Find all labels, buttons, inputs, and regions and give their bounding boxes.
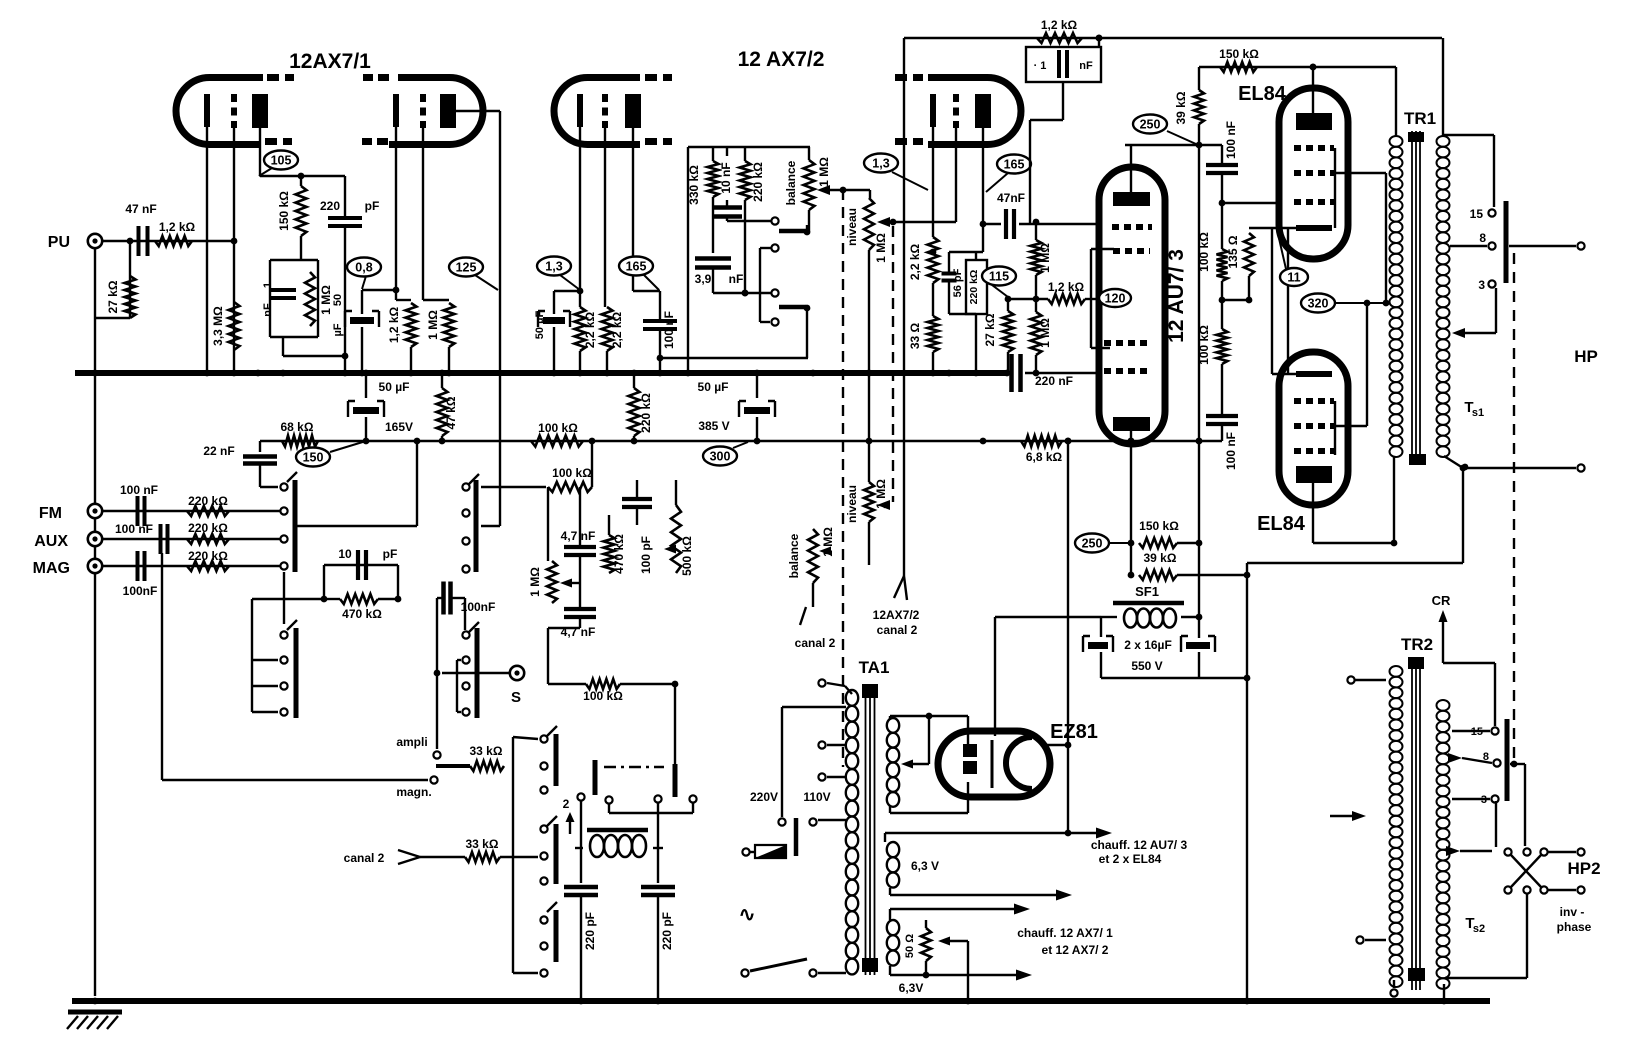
svg-text:220 pF: 220 pF xyxy=(583,912,597,950)
svg-text:47 nF: 47 nF xyxy=(125,202,156,216)
svg-text:1 MΩ: 1 MΩ xyxy=(874,233,888,263)
svg-text:100 kΩ: 100 kΩ xyxy=(552,466,592,480)
svg-text:balance: balance xyxy=(784,160,798,205)
svg-text:150 kΩ: 150 kΩ xyxy=(277,191,291,231)
svg-text:50: 50 xyxy=(332,294,344,306)
svg-text:TR1: TR1 xyxy=(1404,109,1436,128)
svg-text:3,9: 3,9 xyxy=(695,272,712,286)
svg-text:inv -: inv - xyxy=(1560,905,1585,919)
svg-text:canal 2: canal 2 xyxy=(877,623,918,637)
svg-text:100 kΩ: 100 kΩ xyxy=(538,421,578,435)
svg-text:220 kΩ: 220 kΩ xyxy=(188,521,228,535)
svg-text:100 kΩ: 100 kΩ xyxy=(583,689,623,703)
svg-text:12 AU7/ 3: 12 AU7/ 3 xyxy=(1165,249,1188,343)
svg-text:nF: nF xyxy=(262,303,274,317)
svg-text:HP2: HP2 xyxy=(1567,859,1600,878)
svg-text:1,2 kΩ: 1,2 kΩ xyxy=(159,220,196,234)
svg-text:1 MΩ: 1 MΩ xyxy=(319,285,333,315)
svg-text:niveau: niveau xyxy=(845,208,859,246)
svg-text:ampli: ampli xyxy=(396,735,427,749)
svg-text:pF: pF xyxy=(383,547,398,561)
svg-text:33 Ω: 33 Ω xyxy=(908,322,922,349)
svg-text:10: 10 xyxy=(338,547,352,561)
svg-text:100 nF: 100 nF xyxy=(115,522,153,536)
svg-text:nF: nF xyxy=(1079,60,1093,72)
svg-text:1: 1 xyxy=(262,282,274,288)
svg-text:250: 250 xyxy=(1140,118,1161,132)
svg-text:100 nF: 100 nF xyxy=(1224,432,1238,470)
svg-text:nF: nF xyxy=(729,272,744,286)
svg-text:220 nF: 220 nF xyxy=(1035,374,1073,388)
svg-text:100 nF: 100 nF xyxy=(120,483,158,497)
svg-text:320: 320 xyxy=(1308,297,1329,311)
svg-text:6,3V: 6,3V xyxy=(899,981,924,995)
svg-text:1,3: 1,3 xyxy=(545,260,562,274)
svg-text:1,2 kΩ: 1,2 kΩ xyxy=(1048,280,1085,294)
svg-text:12AX7/1: 12AX7/1 xyxy=(289,50,371,73)
svg-text:1,2 kΩ: 1,2 kΩ xyxy=(1041,18,1078,32)
svg-text:3: 3 xyxy=(1481,794,1487,806)
svg-text:2,2 kΩ: 2,2 kΩ xyxy=(610,311,624,348)
svg-text:∿: ∿ xyxy=(739,904,756,926)
svg-text:EL84: EL84 xyxy=(1257,513,1306,535)
svg-text:2: 2 xyxy=(563,797,570,811)
svg-text:47nF: 47nF xyxy=(997,191,1025,205)
svg-text:165V: 165V xyxy=(385,420,413,434)
svg-text:s1: s1 xyxy=(1472,407,1484,419)
svg-text:100 pF: 100 pF xyxy=(639,536,653,574)
svg-text:150 kΩ: 150 kΩ xyxy=(1139,519,1179,533)
svg-text:68 kΩ: 68 kΩ xyxy=(281,420,314,434)
svg-text:27 kΩ: 27 kΩ xyxy=(106,280,120,313)
svg-text:135 Ω: 135 Ω xyxy=(1226,235,1240,268)
svg-text:2,2 kΩ: 2,2 kΩ xyxy=(908,243,922,280)
svg-text:250: 250 xyxy=(1082,537,1103,551)
svg-text:3: 3 xyxy=(1478,278,1485,292)
svg-text:125: 125 xyxy=(456,261,477,275)
svg-text:220 kΩ: 220 kΩ xyxy=(188,549,228,563)
svg-text:0,8: 0,8 xyxy=(355,261,372,275)
svg-text:385 V: 385 V xyxy=(698,419,729,433)
svg-text:47 kΩ: 47 kΩ xyxy=(444,396,458,429)
svg-text:3,3 MΩ: 3,3 MΩ xyxy=(211,306,225,346)
svg-text:100 kΩ: 100 kΩ xyxy=(1197,325,1211,365)
svg-text:105: 105 xyxy=(271,154,292,168)
svg-text:2 x 16µF: 2 x 16µF xyxy=(1124,638,1172,652)
svg-text:1 MΩ: 1 MΩ xyxy=(1038,318,1052,348)
svg-text:330 kΩ: 330 kΩ xyxy=(687,165,701,205)
svg-text:22 nF: 22 nF xyxy=(203,444,234,458)
svg-text:EL84: EL84 xyxy=(1238,83,1287,105)
svg-text:470 kΩ: 470 kΩ xyxy=(612,534,626,574)
svg-text:50 Ω: 50 Ω xyxy=(904,934,916,958)
svg-text:220V: 220V xyxy=(750,790,778,804)
svg-text:6,3 V: 6,3 V xyxy=(911,859,939,873)
svg-text:EZ81: EZ81 xyxy=(1050,721,1098,743)
svg-text:220 kΩ: 220 kΩ xyxy=(968,270,980,305)
svg-text:110V: 110V xyxy=(803,790,830,804)
svg-text:220 kΩ: 220 kΩ xyxy=(188,494,228,508)
svg-text:100nF: 100nF xyxy=(123,584,158,598)
svg-text:canal 2: canal 2 xyxy=(795,636,836,650)
svg-text:1,3: 1,3 xyxy=(872,157,889,171)
svg-text:chauff. 12 AU7/ 3: chauff. 12 AU7/ 3 xyxy=(1091,838,1188,852)
svg-text:39 kΩ: 39 kΩ xyxy=(1174,91,1188,124)
svg-text:8: 8 xyxy=(1483,751,1489,763)
svg-text:8: 8 xyxy=(1479,231,1486,245)
svg-text:6,8 kΩ: 6,8 kΩ xyxy=(1026,450,1063,464)
svg-text:TA1: TA1 xyxy=(859,658,890,677)
svg-text:100 kΩ: 100 kΩ xyxy=(1197,232,1211,272)
svg-text:et 12 AX7/ 2: et 12 AX7/ 2 xyxy=(1042,943,1109,957)
svg-text:500 kΩ: 500 kΩ xyxy=(680,536,694,576)
svg-text:niveau: niveau xyxy=(845,485,859,523)
svg-text:S: S xyxy=(511,689,521,706)
svg-text:canal 2: canal 2 xyxy=(344,851,385,865)
svg-text:µF: µF xyxy=(332,323,344,336)
svg-text:15: 15 xyxy=(1471,726,1483,738)
svg-text:220 kΩ: 220 kΩ xyxy=(751,162,765,202)
svg-text:1 MΩ: 1 MΩ xyxy=(528,567,542,597)
svg-text:100 nF: 100 nF xyxy=(662,311,676,349)
svg-text:56 pF: 56 pF xyxy=(952,268,964,297)
svg-text:150 kΩ: 150 kΩ xyxy=(1219,47,1259,61)
svg-text:2,2 kΩ: 2,2 kΩ xyxy=(583,311,597,348)
svg-text:220: 220 xyxy=(320,199,340,213)
svg-text:12AX7/2: 12AX7/2 xyxy=(873,608,920,622)
svg-text:phase: phase xyxy=(1557,920,1592,934)
svg-text:165: 165 xyxy=(1004,158,1025,172)
svg-text:12 AX7/2: 12 AX7/2 xyxy=(738,48,825,71)
svg-text:50 µF: 50 µF xyxy=(698,380,729,394)
svg-text:300: 300 xyxy=(710,450,731,464)
svg-text:150: 150 xyxy=(303,451,324,465)
svg-text:470 kΩ: 470 kΩ xyxy=(342,607,382,621)
svg-text:AUX: AUX xyxy=(34,533,68,550)
svg-text:1 MΩ: 1 MΩ xyxy=(1038,243,1052,273)
svg-text:s2: s2 xyxy=(1473,923,1485,935)
svg-text:pF: pF xyxy=(365,199,380,213)
svg-text:MAG: MAG xyxy=(33,560,70,577)
svg-text:27 kΩ: 27 kΩ xyxy=(983,313,997,346)
svg-text:120: 120 xyxy=(1105,292,1126,306)
svg-text:FM: FM xyxy=(39,505,62,522)
svg-text:15: 15 xyxy=(1470,207,1484,221)
svg-text:1,2 kΩ: 1,2 kΩ xyxy=(387,306,401,343)
svg-text:11: 11 xyxy=(1287,271,1300,285)
svg-text:4,7 nF: 4,7 nF xyxy=(561,529,596,543)
svg-text:balance: balance xyxy=(787,533,801,578)
svg-text:115: 115 xyxy=(989,270,1009,284)
svg-text:chauff. 12 AX7/ 1: chauff. 12 AX7/ 1 xyxy=(1017,926,1113,940)
svg-text:220 kΩ: 220 kΩ xyxy=(639,393,653,433)
svg-text:1 MΩ: 1 MΩ xyxy=(817,157,831,187)
svg-text:33 kΩ: 33 kΩ xyxy=(470,744,503,758)
svg-text:220 pF: 220 pF xyxy=(660,912,674,950)
svg-text:100 nF: 100 nF xyxy=(1224,121,1238,159)
svg-text:et 2 x EL84: et 2 x EL84 xyxy=(1099,852,1162,866)
svg-text:50 µF: 50 µF xyxy=(379,380,410,394)
svg-text:50 µF: 50 µF xyxy=(534,311,546,340)
svg-text:SF1: SF1 xyxy=(1135,584,1159,599)
svg-text:165: 165 xyxy=(626,260,647,274)
svg-text:CR: CR xyxy=(1432,593,1451,608)
svg-text:550 V: 550 V xyxy=(1131,659,1162,673)
svg-text:33 kΩ: 33 kΩ xyxy=(466,837,499,851)
svg-text:· 1: · 1 xyxy=(1034,60,1047,72)
svg-text:1 MΩ: 1 MΩ xyxy=(426,310,440,340)
svg-text:magn.: magn. xyxy=(396,785,431,799)
svg-text:39 kΩ: 39 kΩ xyxy=(1144,551,1177,565)
svg-text:TR2: TR2 xyxy=(1401,635,1433,654)
svg-text:10 nF: 10 nF xyxy=(719,162,733,193)
svg-text:HP: HP xyxy=(1574,347,1598,366)
svg-text:PU: PU xyxy=(48,234,70,251)
